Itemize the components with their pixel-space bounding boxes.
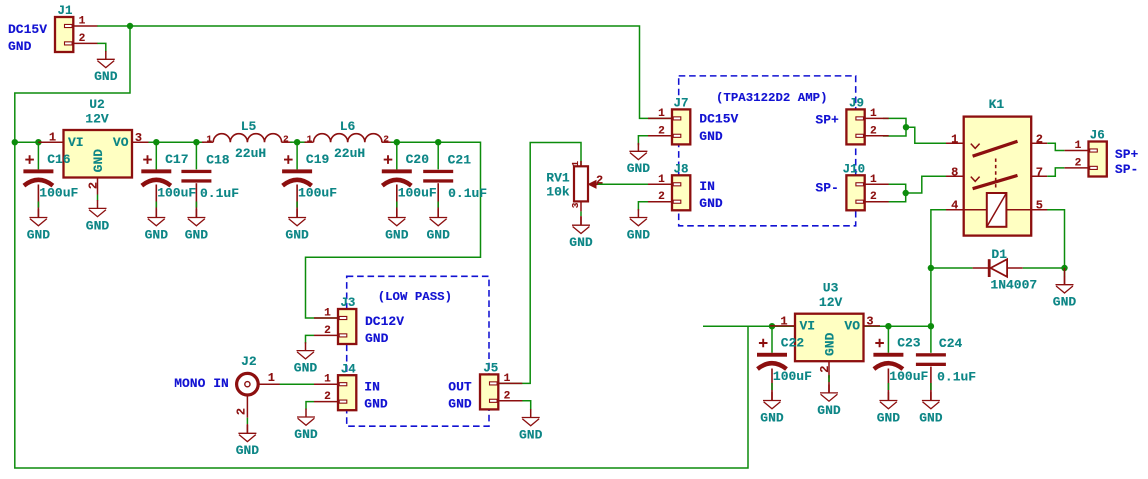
svg-text:GND: GND: [8, 39, 32, 54]
svg-text:2: 2: [1075, 157, 1082, 169]
svg-text:J9: J9: [849, 97, 864, 111]
svg-text:2: 2: [383, 133, 389, 144]
svg-text:GND: GND: [919, 410, 943, 425]
svg-text:2: 2: [1036, 132, 1043, 146]
svg-text:4: 4: [951, 199, 958, 213]
svg-text:0.1uF: 0.1uF: [448, 186, 487, 201]
svg-text:1: 1: [780, 314, 787, 328]
svg-text:2: 2: [86, 182, 100, 189]
svg-text:SP-: SP-: [815, 180, 838, 195]
svg-text:J1: J1: [58, 4, 73, 18]
svg-text:GND: GND: [365, 331, 389, 346]
svg-text:1: 1: [79, 16, 86, 28]
svg-text:1: 1: [870, 108, 877, 120]
svg-text:GND: GND: [817, 403, 841, 418]
svg-text:(TPA3122D2 AMP): (TPA3122D2 AMP): [716, 91, 828, 105]
svg-text:100uF: 100uF: [157, 186, 196, 201]
svg-text:3: 3: [866, 315, 873, 329]
svg-text:GND: GND: [145, 227, 169, 242]
svg-text:2: 2: [818, 366, 832, 373]
svg-text:2: 2: [658, 191, 665, 203]
svg-text:L6: L6: [340, 119, 356, 134]
svg-text:C19: C19: [306, 152, 330, 167]
svg-text:GND: GND: [699, 196, 723, 211]
svg-text:3: 3: [570, 202, 581, 208]
svg-text:1: 1: [504, 373, 511, 385]
svg-text:MONO IN: MONO IN: [174, 376, 229, 391]
svg-text:2: 2: [283, 133, 289, 144]
svg-text:OUT: OUT: [448, 380, 472, 395]
svg-text:GND: GND: [627, 227, 651, 242]
svg-text:1: 1: [870, 174, 877, 186]
svg-text:IN: IN: [699, 179, 715, 194]
svg-text:J4: J4: [341, 362, 357, 376]
svg-text:2: 2: [870, 191, 877, 203]
svg-text:GND: GND: [285, 227, 309, 242]
svg-text:GND: GND: [185, 227, 209, 242]
svg-text:0.1uF: 0.1uF: [200, 186, 239, 201]
svg-text:RV1: RV1: [546, 171, 570, 186]
svg-text:GND: GND: [294, 361, 318, 376]
svg-text:2: 2: [504, 390, 511, 402]
svg-text:1: 1: [570, 161, 581, 167]
svg-text:U3: U3: [823, 281, 839, 296]
svg-text:VO: VO: [844, 319, 860, 334]
svg-text:100uF: 100uF: [398, 186, 437, 201]
svg-text:2: 2: [235, 408, 249, 415]
svg-text:SP-: SP-: [1115, 162, 1138, 177]
svg-text:J6: J6: [1090, 129, 1105, 143]
svg-text:DC15V: DC15V: [699, 112, 738, 127]
svg-text:C17: C17: [165, 152, 188, 167]
svg-text:10k: 10k: [546, 184, 570, 199]
svg-text:12V: 12V: [85, 111, 109, 126]
svg-text:8: 8: [951, 165, 958, 179]
svg-text:DC12V: DC12V: [365, 314, 404, 329]
svg-text:C22: C22: [781, 335, 805, 350]
svg-text:C24: C24: [939, 336, 963, 351]
svg-text:1: 1: [307, 133, 313, 144]
svg-text:SP+: SP+: [815, 113, 839, 128]
svg-text:1: 1: [268, 371, 275, 385]
svg-text:1N4007: 1N4007: [990, 277, 1037, 292]
svg-text:2: 2: [870, 125, 877, 137]
svg-text:1: 1: [658, 108, 665, 120]
svg-text:GND: GND: [448, 397, 472, 412]
svg-text:C21: C21: [448, 153, 472, 168]
svg-text:3: 3: [135, 131, 142, 145]
svg-text:GND: GND: [569, 235, 593, 250]
svg-text:100uF: 100uF: [889, 369, 928, 384]
svg-text:GND: GND: [86, 218, 110, 233]
svg-text:GND: GND: [1053, 295, 1077, 310]
svg-text:0.1uF: 0.1uF: [937, 369, 976, 384]
svg-text:C16: C16: [47, 152, 71, 167]
svg-text:1: 1: [324, 374, 331, 386]
svg-text:J7: J7: [674, 97, 689, 111]
svg-text:7: 7: [1036, 165, 1043, 179]
svg-text:GND: GND: [760, 410, 784, 425]
svg-text:100uF: 100uF: [39, 186, 78, 201]
svg-text:DC15V: DC15V: [8, 22, 47, 37]
svg-text:GND: GND: [91, 149, 106, 173]
svg-text:1: 1: [324, 308, 331, 320]
svg-text:22uH: 22uH: [334, 146, 365, 161]
svg-text:VI: VI: [68, 135, 84, 150]
svg-text:1: 1: [658, 174, 665, 186]
svg-text:K1: K1: [989, 97, 1005, 112]
svg-text:VI: VI: [800, 319, 816, 334]
svg-text:GND: GND: [236, 443, 260, 458]
svg-text:GND: GND: [426, 227, 450, 242]
svg-text:C20: C20: [406, 152, 430, 167]
svg-text:J5: J5: [483, 362, 498, 376]
svg-text:1: 1: [951, 132, 958, 146]
svg-text:(LOW PASS): (LOW PASS): [378, 290, 452, 304]
svg-text:J8: J8: [674, 163, 689, 177]
svg-text:12V: 12V: [819, 295, 843, 310]
svg-text:GND: GND: [823, 332, 838, 356]
svg-text:J3: J3: [340, 296, 355, 310]
svg-text:GND: GND: [877, 410, 901, 425]
svg-text:2: 2: [79, 33, 86, 45]
svg-text:IN: IN: [364, 380, 380, 395]
svg-text:GND: GND: [627, 161, 651, 176]
svg-text:GND: GND: [94, 69, 118, 84]
svg-text:GND: GND: [519, 427, 543, 442]
svg-text:GND: GND: [385, 227, 409, 242]
svg-text:1: 1: [1075, 140, 1082, 152]
svg-text:100uF: 100uF: [298, 186, 337, 201]
svg-text:GND: GND: [294, 427, 318, 442]
svg-text:J2: J2: [241, 354, 257, 369]
svg-text:2: 2: [324, 391, 331, 403]
svg-text:100uF: 100uF: [773, 369, 812, 384]
svg-text:2: 2: [658, 125, 665, 137]
svg-text:C18: C18: [206, 153, 230, 168]
svg-text:SP+: SP+: [1115, 147, 1139, 162]
svg-text:2: 2: [596, 174, 603, 188]
svg-text:C23: C23: [897, 335, 921, 350]
svg-text:1: 1: [49, 131, 56, 145]
svg-text:U2: U2: [89, 97, 105, 112]
svg-text:22uH: 22uH: [235, 146, 266, 161]
svg-text:2: 2: [324, 325, 331, 337]
svg-text:J10: J10: [843, 163, 866, 177]
svg-text:GND: GND: [364, 397, 388, 412]
svg-text:1: 1: [206, 133, 212, 144]
svg-text:5: 5: [1036, 199, 1043, 213]
svg-text:VO: VO: [113, 135, 129, 150]
svg-text:D1: D1: [991, 247, 1007, 262]
svg-text:L5: L5: [241, 119, 257, 134]
svg-text:GND: GND: [699, 129, 723, 144]
svg-text:GND: GND: [27, 227, 51, 242]
